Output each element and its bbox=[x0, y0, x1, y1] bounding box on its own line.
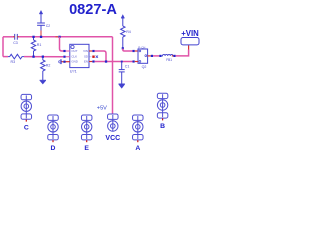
wire: top rail bbox=[19, 36, 56, 38]
node at C2 junction bbox=[40, 36, 42, 38]
svg-text:Q2: Q2 bbox=[142, 65, 147, 69]
wire: IC pin1 right bend to rail bbox=[95, 51, 106, 62]
wire: bottom rail bbox=[24, 56, 63, 58]
svg-text:C2: C2 bbox=[46, 24, 50, 28]
svg-text:FB1: FB1 bbox=[166, 58, 172, 62]
connector VCC bbox=[108, 114, 119, 131]
resistor R1 bbox=[31, 37, 41, 57]
svg-text:P-CH: P-CH bbox=[138, 45, 145, 49]
svg-text:D: D bbox=[51, 145, 56, 150]
capacitor C3 bbox=[15, 34, 18, 40]
wire: left vertical bbox=[2, 37, 4, 57]
wire: y61 rail bbox=[95, 61, 133, 63]
svg-text:U?1: U?1 bbox=[70, 69, 77, 73]
connector C bbox=[21, 94, 32, 119]
power arrow up (C2 branch) bbox=[39, 10, 43, 23]
node at OUT junction on top rail bbox=[58, 36, 60, 38]
svg-text:C3: C3 bbox=[13, 41, 18, 45]
capacitor C1 bbox=[119, 61, 130, 84]
svg-text:+5V: +5V bbox=[97, 106, 107, 112]
wire: top rail continues bbox=[58, 36, 112, 38]
svg-text:E: E bbox=[84, 145, 89, 150]
node at R1 bottom bbox=[32, 56, 34, 58]
power arrow up (R4) bbox=[121, 14, 125, 26]
svg-text:CLK: CLK bbox=[71, 55, 77, 59]
node at R2 top bbox=[42, 56, 44, 58]
svg-text:A: A bbox=[135, 145, 140, 150]
mic symbol at GND pin bbox=[59, 59, 62, 64]
resistor R3 bbox=[8, 54, 24, 59]
IC right pin stubs bbox=[89, 50, 92, 52]
svg-text:VIN: VIN bbox=[83, 49, 88, 53]
svg-text:+VIN: +VIN bbox=[181, 29, 199, 38]
svg-text:VCC: VCC bbox=[105, 135, 120, 142]
svg-text:GND: GND bbox=[71, 60, 77, 64]
no-connect X on mid right pin bbox=[96, 56, 98, 58]
wire: rail into Q2 lower-left pin bbox=[133, 60, 135, 62]
IC U1 body bbox=[70, 44, 89, 67]
resistor R4 bbox=[121, 26, 131, 48]
svg-text:C1: C1 bbox=[125, 65, 130, 69]
svg-text:B: B bbox=[160, 123, 165, 130]
wire: bottom rail left bbox=[3, 56, 8, 58]
svg-text:SD: SD bbox=[84, 55, 88, 59]
svg-text:0827-A: 0827-A bbox=[69, 2, 117, 18]
wire: +5V vertical drop bbox=[112, 37, 114, 115]
svg-text:R4: R4 bbox=[126, 30, 131, 34]
wire C2 to rail bbox=[40, 31, 42, 37]
svg-text:EN: EN bbox=[84, 60, 88, 64]
svg-text:R3: R3 bbox=[11, 60, 16, 64]
ground arrow below C1 bbox=[119, 84, 125, 89]
wire: R4 to Q2 gate bbox=[122, 47, 124, 49]
connector E bbox=[81, 115, 92, 140]
red stub before OUT node bbox=[56, 36, 59, 38]
ground arrow below R2 bbox=[40, 80, 46, 84]
wire: OUT pin drop bbox=[60, 37, 66, 51]
wire: top rail left bbox=[3, 36, 13, 38]
svg-text:R1: R1 bbox=[37, 43, 42, 47]
wire: Q2 drain out bbox=[148, 55, 151, 57]
transistor Q2 bbox=[138, 49, 148, 63]
svg-text:OUT: OUT bbox=[71, 49, 77, 53]
IC pin labels bbox=[71, 49, 88, 64]
connector D bbox=[48, 115, 59, 140]
connector B bbox=[157, 93, 168, 118]
svg-text:R2: R2 bbox=[46, 63, 51, 67]
capacitor C2 bbox=[37, 23, 45, 31]
ferrite bead FB1 bbox=[162, 54, 174, 56]
wire: FB1 to +VIN bbox=[176, 50, 189, 56]
node where pin1 wire meets rail bbox=[105, 60, 107, 62]
resistor R2 bbox=[41, 57, 51, 81]
connector A bbox=[133, 115, 144, 140]
IC left pin stubs bbox=[66, 50, 70, 52]
+VIN port bbox=[181, 38, 199, 45]
svg-text:C: C bbox=[24, 124, 29, 131]
node at R1 top bbox=[32, 36, 34, 38]
